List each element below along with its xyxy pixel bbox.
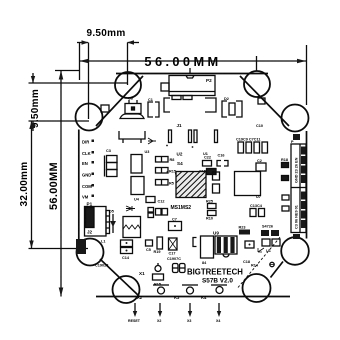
- label U1 C22: [203, 152, 211, 160]
- capacitor white pads: [245, 239, 280, 248]
- test point K3b: [187, 287, 194, 294]
- label D2: [224, 97, 229, 101]
- dimension arrows 9.50mm top: [77, 40, 139, 44]
- mounting hole top-right-b: [282, 105, 309, 132]
- label R10: [206, 217, 213, 221]
- capacitor C14 stack: [121, 240, 133, 254]
- tick top hole center level: [29, 82, 128, 84]
- capacitor squares: [156, 209, 168, 216]
- board outline: [79, 74, 307, 297]
- dimension line 9.50mm left: [31, 73, 35, 131]
- resistor R28: [282, 206, 289, 211]
- label L1: [101, 240, 105, 244]
- mounting hole bottom-right-b: [243, 274, 271, 302]
- label C17: [169, 252, 176, 256]
- left pin pads: [92, 140, 95, 198]
- label U9: [213, 231, 219, 236]
- pad above connector: [293, 134, 300, 140]
- capacitor pair 8B: [173, 264, 186, 273]
- diode D5: [110, 214, 116, 233]
- label J2: [87, 230, 93, 235]
- resistor R17: [282, 176, 289, 181]
- dimension text 9.50mm top: [86, 28, 125, 39]
- bottom arrow 2: [158, 303, 162, 317]
- label MS1MS2: [171, 205, 192, 211]
- extension line board left top: [79, 43, 81, 80]
- diode arrow U1: [258, 248, 264, 252]
- fiducial: [270, 262, 274, 266]
- dimension text 56.00MM left (rotated): [48, 162, 60, 210]
- dimension line 56.00MM top: [80, 59, 307, 64]
- label R15: [169, 170, 176, 174]
- dashed diagonal: [238, 236, 281, 288]
- capacitor C2: [256, 163, 266, 171]
- top edge center tick: [189, 68, 191, 74]
- capacitor pair below U7: [250, 209, 265, 217]
- test point X1: [155, 263, 161, 272]
- transistor pair: [157, 237, 163, 249]
- capacitor C16 bracket: [217, 161, 228, 167]
- board top edge: [116, 73, 268, 75]
- labels C19 C9 C7 C11: [236, 138, 260, 142]
- resistor R10: [208, 211, 217, 216]
- resistor R18: [282, 163, 289, 168]
- chamfer pad top-right: [258, 98, 265, 104]
- label C13C4: [250, 204, 263, 208]
- capacitor C15 black: [167, 169, 217, 175]
- mounting hole top-left-b: [76, 104, 103, 131]
- capacitor pair small top: [148, 208, 154, 218]
- label C16: [218, 154, 225, 158]
- bottom labels: [128, 319, 220, 323]
- diode D4 symbol: [126, 206, 135, 211]
- label C1: [148, 98, 153, 102]
- regulator U4: [131, 177, 144, 195]
- label RES: [154, 283, 161, 287]
- capacitor C7: [169, 222, 182, 231]
- label P1: [87, 202, 93, 207]
- label U4: [134, 198, 140, 202]
- label R19: [154, 250, 161, 254]
- bottom arrow 3: [188, 303, 192, 317]
- tick board top outer level: [55, 70, 80, 72]
- label C5: [146, 248, 151, 252]
- label J1: [177, 123, 183, 128]
- capacitor C3 stack: [105, 156, 118, 177]
- resistor R25: [208, 204, 217, 209]
- dimension line 56.00MM left: [59, 71, 64, 297]
- left pin labels DIR CLK EN GND COM VM: [82, 140, 92, 200]
- tick left hole top center level: [29, 120, 90, 122]
- chamfer pad top-left: [101, 105, 109, 112]
- mounting hole top-left-a: [115, 72, 141, 98]
- label R23: [239, 226, 246, 230]
- capacitor C5: [146, 240, 153, 246]
- dimension line 32.00mm left: [29, 121, 33, 249]
- resistor pair right of U5: [213, 172, 220, 193]
- resistor R8: [156, 157, 169, 163]
- bottom arrow 1: [133, 303, 137, 317]
- label C15: [199, 170, 206, 174]
- mounting hole bottom-left-a: [77, 239, 104, 266]
- top-right hole center tick: [256, 56, 258, 71]
- resistor R5: [156, 180, 169, 186]
- label C7: [172, 218, 177, 222]
- mounting hole top-right-a: [244, 71, 270, 97]
- label C2: [257, 159, 262, 163]
- label S4726: [262, 225, 273, 229]
- label C19028: [95, 264, 108, 268]
- dimension text 9.50mm left (rotated): [30, 89, 41, 128]
- bottom edge labels X2 K3 K4: [137, 295, 207, 300]
- connector J1: [164, 98, 218, 148]
- chamfer bottom-left: [100, 259, 139, 296]
- resistor R23 black: [239, 230, 250, 235]
- label R5: [169, 182, 174, 186]
- connector P2: [161, 76, 215, 100]
- capacitor C1: [148, 102, 159, 117]
- capacitor row C19 C9 C7 C11: [238, 142, 268, 153]
- mounting hole bottom-right-a: [281, 237, 309, 265]
- label C14: [122, 256, 130, 260]
- label X1: [139, 271, 145, 276]
- resistor R15 bottom: [153, 274, 164, 280]
- connector P1: [85, 207, 110, 237]
- label U7: [256, 195, 261, 199]
- trace strip: [175, 173, 206, 175]
- right edge connector pads: [301, 147, 306, 229]
- label P3: [291, 140, 294, 144]
- test point K3a: [158, 287, 165, 294]
- tick left hole bottom center level: [29, 248, 89, 250]
- capacitor C12: [146, 197, 155, 203]
- resistor grid right: [261, 230, 279, 236]
- IC U5 hatched: [176, 172, 206, 198]
- label P2: [206, 78, 212, 83]
- label C19070: [167, 257, 181, 261]
- right edge connector P3: [291, 144, 306, 233]
- chamfer top-right: [240, 76, 289, 126]
- label C3: [106, 149, 111, 153]
- label U3: [145, 150, 150, 154]
- dimension text 56.00MM top: [144, 54, 221, 69]
- brand text S57B V2.0: [202, 278, 233, 285]
- label D5: [109, 210, 114, 214]
- regulator U3: [131, 155, 142, 174]
- label C12: [158, 200, 165, 204]
- capacitor C8 outline bottom-left: [119, 131, 156, 144]
- label R4: [202, 261, 207, 265]
- extension line board right top: [306, 45, 308, 105]
- label U2: [177, 152, 183, 157]
- scan noise: [0, 0, 1, 1]
- label R18: [281, 158, 288, 162]
- IC U8: [193, 236, 214, 258]
- transistor Q3: [120, 100, 144, 119]
- board right edge: [306, 131, 308, 239]
- board left edge: [78, 130, 80, 240]
- label R8: [170, 158, 175, 162]
- resistor R29: [282, 195, 289, 200]
- chamfer top-left: [96, 76, 143, 126]
- pad below connector: [293, 234, 300, 239]
- bottom arrow 4: [217, 303, 221, 317]
- label R25: [206, 200, 213, 204]
- resistor C22 body: [203, 161, 212, 167]
- board bottom edge: [96, 296, 290, 298]
- IC U7: [235, 172, 261, 196]
- connector U9 striped: [215, 236, 237, 257]
- label Q3: [128, 97, 133, 101]
- label U1: [266, 249, 271, 253]
- capacitor C17 with X: [169, 238, 178, 250]
- extension line left hole center: [88, 43, 90, 120]
- right connector pin text: [295, 157, 299, 229]
- dimension text 32.00mm left (rotated): [19, 162, 30, 207]
- transformer L2: [123, 217, 141, 238]
- diode D2 bracket: [222, 101, 242, 117]
- extension line top hole center: [127, 43, 129, 86]
- label S4: [177, 161, 183, 166]
- dark pad left edge: [76, 239, 86, 254]
- chamfer bottom-right: [271, 262, 284, 278]
- brand text BIGTREETECH: [187, 268, 243, 277]
- capacitor C10 label: [256, 124, 263, 128]
- labels C18 R14: [243, 260, 259, 268]
- mounting hole bottom-left-b: [113, 276, 140, 303]
- resistor R15: [156, 168, 169, 174]
- test point K4: [216, 287, 223, 294]
- bottom edge test dashes: [153, 284, 227, 286]
